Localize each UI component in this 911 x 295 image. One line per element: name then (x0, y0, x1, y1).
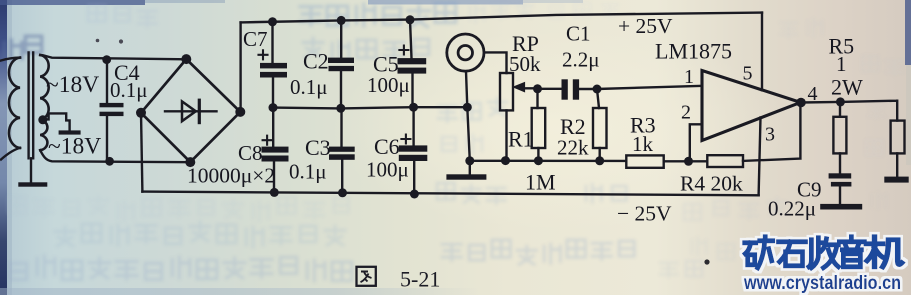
wire secondary top lead to bridge AC input (40, 55, 186, 59)
resistor R5 (833, 102, 846, 173)
ink speck (119, 39, 123, 43)
svg-text:100μ: 100μ (367, 73, 410, 97)
capacitor C8 (262, 108, 289, 193)
node C6 bottom rail junction (410, 190, 419, 199)
wire R3 to inverting node (664, 160, 708, 162)
svg-text:C1: C1 (566, 22, 591, 46)
bridge rectifier diamond (141, 59, 240, 162)
load resistor (speaker) (891, 121, 905, 177)
wire pin 2 stub (690, 124, 702, 161)
wire C1 to op-amp pin 1 (579, 86, 702, 89)
wire +25V top rail (241, 13, 762, 23)
capacitor C9 (829, 173, 852, 204)
svg-text:0.1μ: 0.1μ (290, 75, 328, 99)
node jack ground bus junction (465, 156, 474, 165)
svg-text:C7: C7 (243, 27, 268, 51)
node C7 top rail junction (268, 17, 277, 26)
svg-text:1: 1 (684, 66, 694, 88)
node inverting input junction (684, 157, 693, 166)
svg-text:3: 3 (765, 124, 775, 146)
svg-text:R1: R1 (508, 127, 534, 152)
svg-text:1: 1 (836, 52, 847, 76)
svg-text:50k: 50k (509, 52, 541, 76)
node R2 top junction (593, 85, 602, 94)
svg-text:5: 5 (743, 63, 753, 85)
wire output to load (801, 101, 897, 121)
svg-text:5-21: 5-21 (400, 267, 440, 292)
svg-text:0.1μ: 0.1μ (289, 160, 327, 184)
top edge strips (0, 0, 145, 5)
svg-text:~18V: ~18V (46, 72, 99, 98)
op-amp U1 LM1875 (702, 71, 801, 141)
transformer T1 secondary winding (40, 55, 48, 150)
svg-text:2W: 2W (831, 75, 863, 100)
svg-text:C2: C2 (303, 49, 329, 74)
capacitor C2 (328, 20, 354, 108)
wire center tap to ground (44, 113, 70, 130)
wire +V rail down to pin 5 (761, 13, 763, 91)
wire jack shell down to 0V rail and ground (466, 71, 470, 174)
wire ground bus (470, 160, 627, 162)
diode inside bridge (165, 100, 217, 122)
RCA input jack J1 (447, 34, 484, 71)
transformer T1 core (29, 53, 34, 159)
node jack 0V rail junction (463, 103, 472, 112)
bottom edge tint (0, 288, 480, 295)
node RP bottom junction (501, 156, 510, 165)
svg-text:2: 2 (681, 102, 691, 124)
svg-text:C6: C6 (374, 134, 400, 159)
node output junction at apex (796, 98, 806, 108)
wire RP bottom to ground bus (505, 110, 507, 160)
wire 0V middle rail (273, 107, 467, 108)
node C4 bottom junction (105, 157, 114, 166)
node bridge left corner (136, 108, 146, 118)
svg-text:~18V: ~18V (48, 134, 101, 160)
svg-text:0.22μ: 0.22μ (768, 197, 816, 221)
potentiometer RP 50k (500, 73, 538, 110)
resistor R1 (532, 89, 546, 161)
svg-text:2.2μ: 2.2μ (562, 48, 600, 72)
node bridge top corner (181, 54, 191, 64)
node C7 C8 middle junction (269, 103, 278, 112)
node C3 bottom rail junction (338, 188, 347, 197)
resistor R2 (593, 89, 607, 161)
wire jack pin to RP top (484, 52, 507, 73)
right edge strip (905, 0, 911, 65)
svg-text:C3: C3 (305, 135, 331, 160)
node C2 top rail junction (337, 16, 346, 25)
svg-text:C8: C8 (238, 141, 263, 165)
svg-text:10000μ×2: 10000μ×2 (187, 164, 275, 188)
capacitor C1 (562, 79, 580, 99)
svg-text:22k: 22k (557, 136, 589, 160)
wire bridge left corner down (141, 113, 142, 192)
node R5 top junction (836, 97, 845, 106)
capacitor C7 (259, 22, 288, 108)
page left edge shadow (0, 0, 7, 295)
node C8 bottom rail junction (270, 188, 279, 197)
svg-text:LM1875: LM1875 (655, 39, 732, 64)
caption figure 5-21 (357, 267, 441, 292)
capacitor C6 (399, 107, 428, 195)
ground (input chassis bar) (446, 174, 486, 179)
wire pin 3 down to -V rail (759, 118, 761, 196)
wire wiper node to C1 (538, 88, 562, 90)
node C5 top rail junction (406, 15, 415, 24)
capacitor C3 (329, 108, 355, 193)
node R2 bottom junction (595, 156, 604, 165)
watermark crystalradio logo (743, 237, 902, 294)
ink speck (96, 39, 100, 43)
wire -25V bottom rail (142, 192, 758, 196)
transformer T1 primary winding (1, 58, 20, 160)
wire secondary bottom lead (40, 150, 190, 162)
svg-text:1M: 1M (525, 170, 556, 195)
ground (load chassis bar) (884, 177, 908, 183)
node C2 C3 middle junction (336, 104, 345, 113)
ground (C9 chassis bar) (820, 204, 862, 210)
svg-text:+ 25V: + 25V (618, 14, 673, 38)
svg-text:1k: 1k (632, 132, 654, 156)
svg-text:www.crystalradio.cn: www.crystalradio.cn (743, 273, 901, 294)
ink speck (704, 259, 709, 264)
resistor R4 (707, 155, 743, 167)
node wiper R1 junction (533, 84, 542, 93)
ground (center tap chassis bar) (59, 130, 81, 134)
svg-text:0.1μ: 0.1μ (110, 78, 148, 102)
node bridge right corner (235, 107, 245, 117)
svg-text:4: 4 (808, 83, 818, 105)
node center tap of secondary (38, 115, 47, 124)
svg-text:R4 20k: R4 20k (680, 172, 743, 196)
capacitor C4 (100, 60, 124, 162)
node bridge bottom corner (185, 157, 195, 167)
wire core to ground (30, 158, 32, 182)
capacitor C5 (398, 20, 427, 108)
svg-text:− 25V: − 25V (617, 202, 672, 226)
wire R4 to output (743, 104, 800, 161)
resistor R3 (626, 155, 663, 167)
node C4 top junction (102, 55, 111, 64)
node R1 bottom junction (534, 156, 543, 165)
node C5 C6 middle junction (409, 103, 418, 112)
wire bridge right corner up to +V rail (239, 22, 241, 112)
svg-text:100μ: 100μ (366, 158, 409, 182)
ground (core chassis bar) (18, 182, 47, 186)
